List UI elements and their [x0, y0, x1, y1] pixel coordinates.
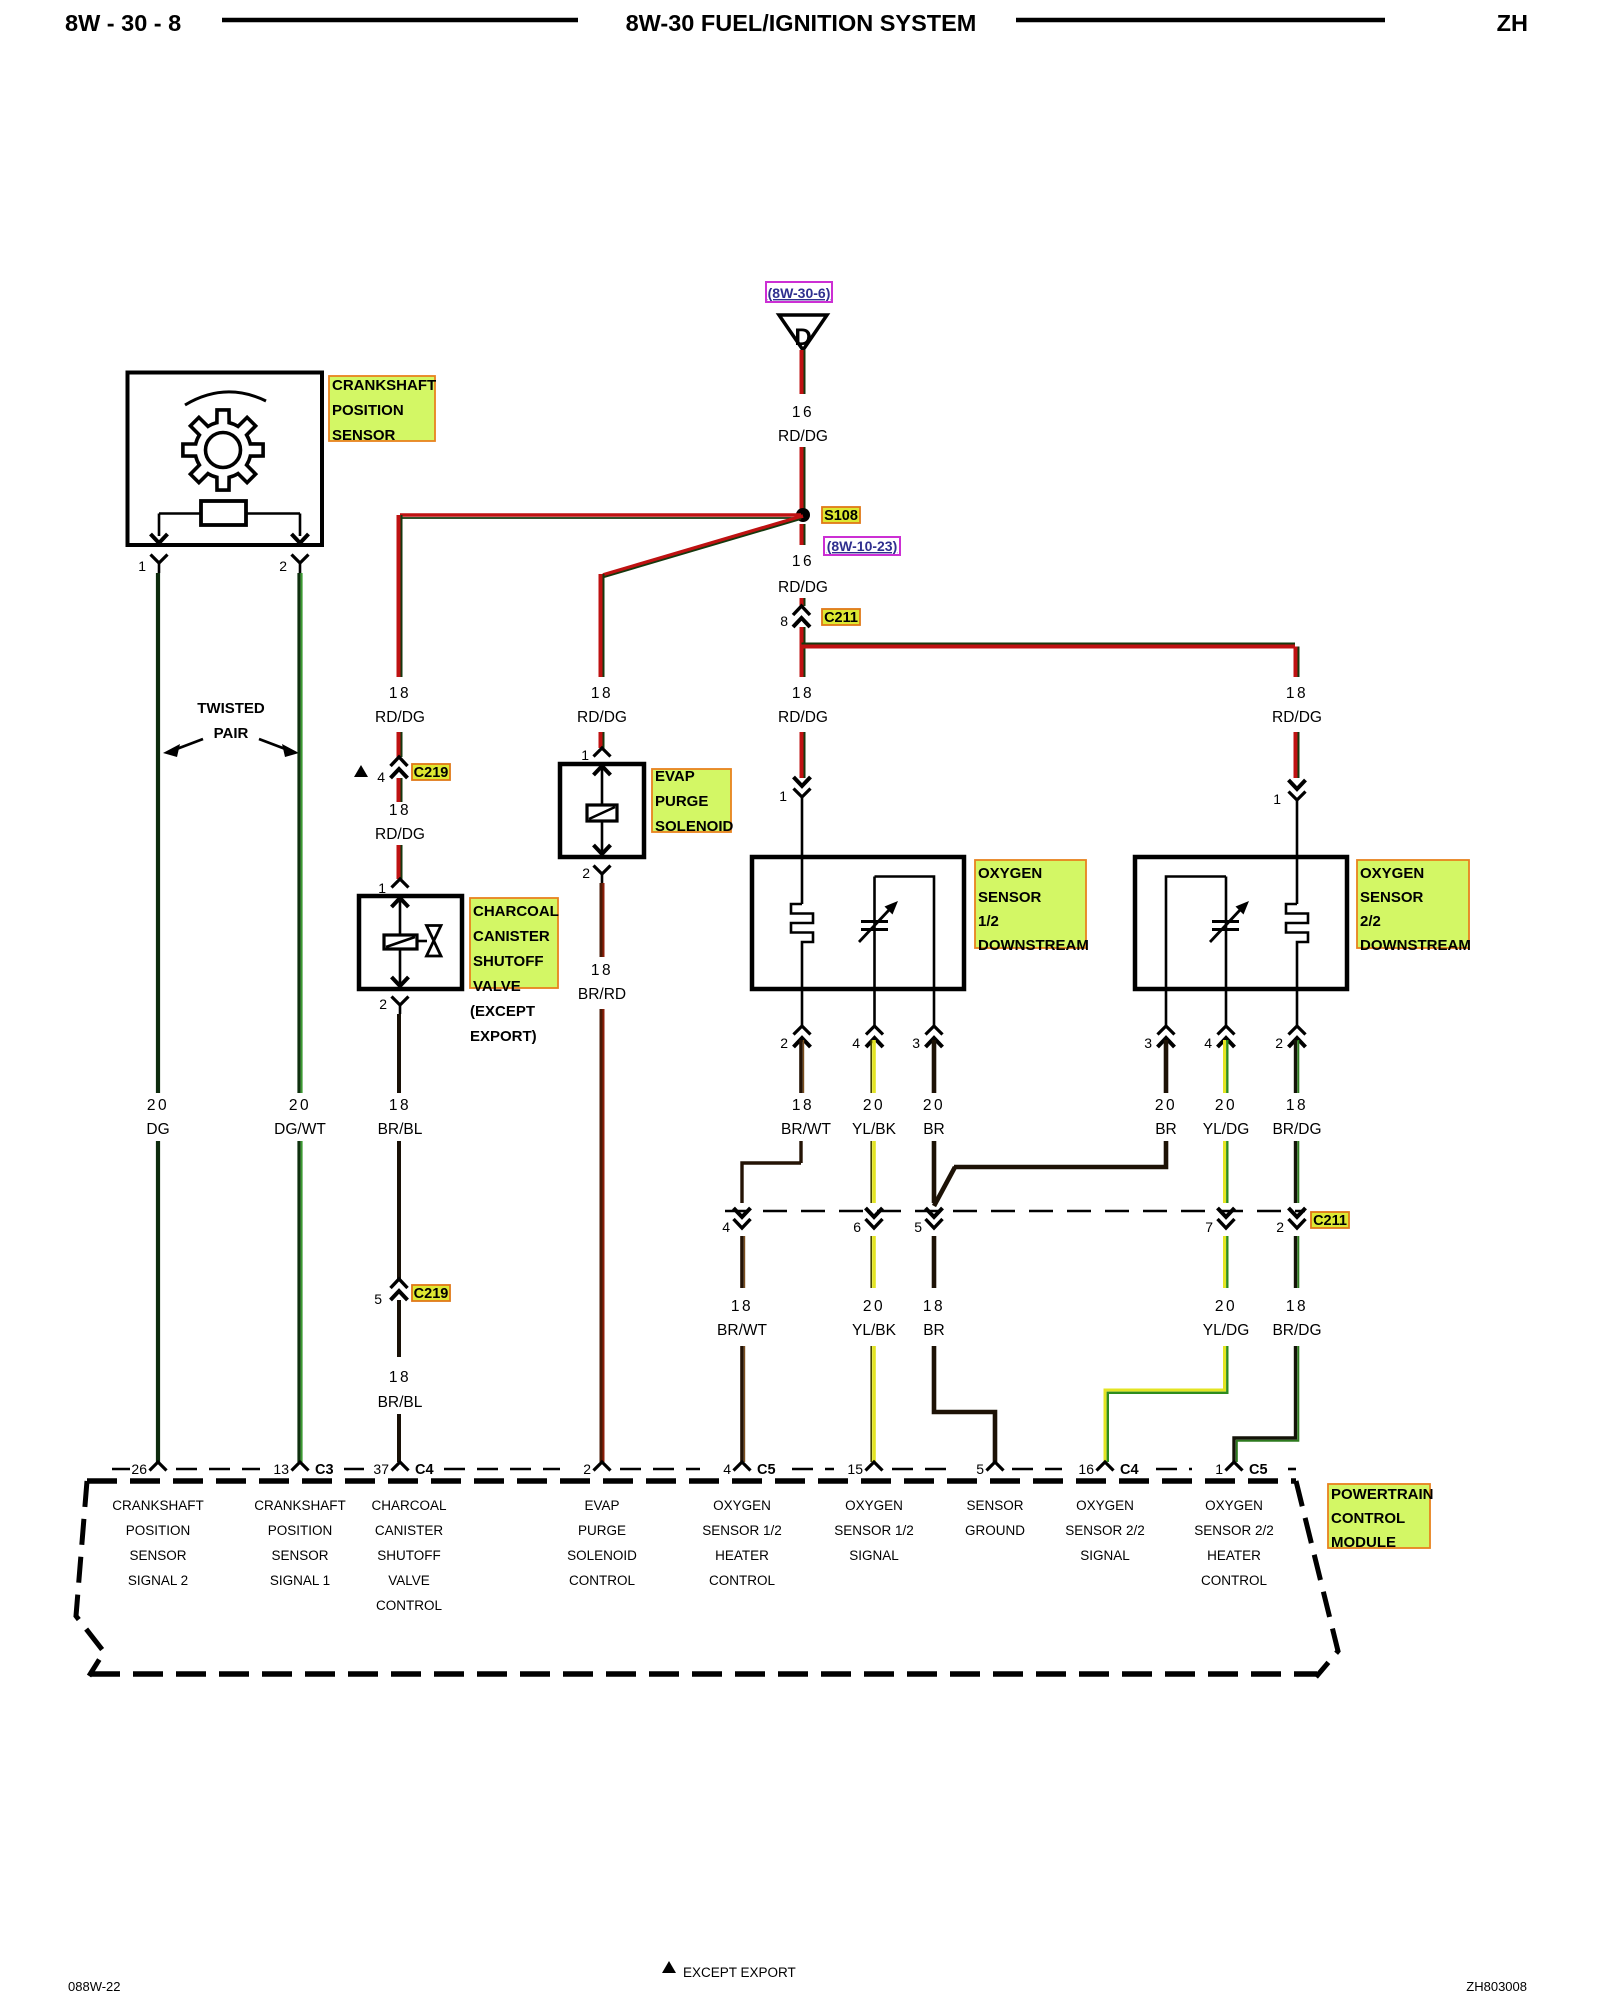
- svg-text:SOLENOID: SOLENOID: [655, 818, 734, 835]
- svg-text:3: 3: [912, 1035, 920, 1051]
- svg-text:DOWNSTREAM: DOWNSTREAM: [978, 937, 1089, 954]
- svg-text:2: 2: [780, 1035, 788, 1051]
- wire 16 RD/DG from triangle: [800, 350, 804, 394]
- svg-text:OXYGEN: OXYGEN: [845, 1498, 903, 1513]
- svg-text:BR/RD: BR/RD: [578, 986, 626, 1003]
- svg-text:CONTROL: CONTROL: [1201, 1573, 1267, 1588]
- label S108: [822, 507, 860, 524]
- svg-text:CANISTER: CANISTER: [375, 1523, 444, 1538]
- svg-text:4: 4: [723, 1461, 731, 1477]
- svg-text:PURGE: PURGE: [578, 1523, 626, 1538]
- svg-text:BR: BR: [923, 1322, 945, 1339]
- wire 20 DG continued: [156, 1141, 160, 1462]
- svg-text:20: 20: [863, 1298, 885, 1315]
- crankshaft sensor gear icon: [183, 410, 263, 490]
- charcoal valve pin 2 connector: [392, 997, 409, 1006]
- wire 18 BR/WT to PCM: [740, 1346, 744, 1462]
- footer except export note: [662, 1961, 676, 1973]
- svg-text:BR/DG: BR/DG: [1272, 1322, 1321, 1339]
- svg-text:BR/WT: BR/WT: [717, 1322, 767, 1339]
- wire 18 BR/DG below C211: [1294, 1236, 1297, 1288]
- svg-text:POSITION: POSITION: [268, 1523, 333, 1538]
- PCM top dashed border: [87, 1478, 1296, 1484]
- wire stub below S108: [800, 524, 804, 545]
- wire 18 BR/DG jog to PCM: [1234, 1346, 1296, 1462]
- svg-text:CRANKSHAFT: CRANKSHAFT: [332, 377, 436, 394]
- svg-text:C211: C211: [1313, 1213, 1347, 1229]
- splice wire S108 to evap branch: [603, 516, 803, 575]
- connector C211 pin 8: [793, 606, 810, 615]
- svg-text:POSITION: POSITION: [332, 402, 404, 419]
- svg-text:8W-30 FUEL/IGNITION SYSTEM: 8W-30 FUEL/IGNITION SYSTEM: [626, 10, 977, 36]
- wire 20 YL/BK to C211 pin 6: [872, 1141, 876, 1203]
- wire 16 RD/DG to splice: [800, 447, 804, 512]
- svg-text:4: 4: [852, 1035, 860, 1051]
- PCM pin 13: [292, 1462, 309, 1471]
- svg-text:18: 18: [1286, 1097, 1308, 1114]
- PCM signal label EVAP PURGE SOLENOID CONTROL: [567, 1498, 637, 1588]
- PCM pin 26: [150, 1462, 167, 1471]
- svg-text:20: 20: [1155, 1097, 1177, 1114]
- svg-text:RD/DG: RD/DG: [1272, 709, 1322, 726]
- svg-text:C219: C219: [414, 765, 449, 781]
- label CRANKSHAFT POSITION SENSOR: [329, 376, 436, 444]
- svg-text:C5: C5: [1249, 1462, 1268, 1478]
- svg-text:PURGE: PURGE: [655, 793, 708, 810]
- charcoal valve symbol: [417, 940, 427, 943]
- wire 20 YL/BK to PCM: [872, 1346, 876, 1462]
- svg-text:(8W-30-6): (8W-30-6): [768, 285, 831, 301]
- svg-text:SIGNAL 2: SIGNAL 2: [128, 1573, 188, 1588]
- crankshaft sensor arc: [185, 392, 266, 405]
- label C211 lower: [1311, 1212, 1349, 1229]
- PCM signal label CRANKSHAFT POSITION SENSOR SIGNAL 1: [254, 1498, 346, 1588]
- wire 18 BR/BL upper: [397, 1014, 401, 1093]
- svg-text:OXYGEN: OXYGEN: [713, 1498, 771, 1513]
- svg-text:SENSOR 2/2: SENSOR 2/2: [1065, 1523, 1145, 1538]
- svg-text:POWERTRAIN: POWERTRAIN: [1331, 1486, 1434, 1503]
- svg-text:SOLENOID: SOLENOID: [567, 1548, 637, 1563]
- svg-text:TWISTED: TWISTED: [197, 700, 265, 717]
- svg-text:SHUTOFF: SHUTOFF: [473, 953, 544, 970]
- svg-text:13: 13: [273, 1461, 289, 1477]
- PCM pin 4: [734, 1462, 751, 1471]
- svg-text:37: 37: [373, 1461, 389, 1477]
- crankshaft sensor pin 1 arrow: [151, 534, 168, 543]
- svg-text:16: 16: [1078, 1461, 1094, 1477]
- PCM signal label OXYGEN SENSOR 1/2 SIGNAL: [834, 1498, 914, 1563]
- svg-text:GROUND: GROUND: [965, 1523, 1025, 1538]
- wire 20 YL/DG below C211: [1223, 1236, 1226, 1288]
- label OXYGEN SENSOR 2/2 DOWNSTREAM: [1357, 860, 1471, 954]
- connector C211 pin 6: [866, 1208, 883, 1217]
- wire 18 BR jog to PCM sensor ground: [934, 1346, 995, 1462]
- wire 18 BR/WT jog to C211 pin 4: [799, 1141, 802, 1163]
- svg-text:20: 20: [289, 1097, 311, 1114]
- PCM signal label SENSOR GROUND: [965, 1498, 1025, 1538]
- svg-text:18: 18: [792, 685, 814, 702]
- connector C211 pin 5: [926, 1208, 943, 1217]
- svg-text:18: 18: [389, 802, 411, 819]
- svg-text:8: 8: [780, 613, 788, 629]
- PCM pin 1: [1226, 1462, 1243, 1471]
- svg-text:2: 2: [582, 865, 590, 881]
- PCM pin 15: [866, 1462, 883, 1471]
- oxygen sensor 2/2 sense element: [1225, 877, 1228, 990]
- wire 18 BR/RD upper: [600, 883, 603, 957]
- crankshaft sensor internal resistor: [201, 501, 246, 525]
- svg-text:C211: C211: [824, 610, 858, 626]
- svg-text:4: 4: [1204, 1035, 1212, 1051]
- svg-text:BR: BR: [923, 1121, 945, 1138]
- wire 20 BR from oxygen sensor 1/2 pin 3: [932, 1040, 937, 1093]
- wire into oxygen sensor 1/2: [801, 809, 804, 904]
- label C211 upper: [822, 609, 860, 626]
- svg-text:YL/BK: YL/BK: [852, 1121, 897, 1138]
- charcoal valve internal arrow top: [399, 896, 402, 935]
- svg-text:CRANKSHAFT: CRANKSHAFT: [112, 1498, 204, 1513]
- wire 18 BR/BL to PCM: [397, 1414, 401, 1462]
- svg-text:DOWNSTREAM: DOWNSTREAM: [1360, 937, 1471, 954]
- connector C211 pin 2: [1289, 1208, 1306, 1217]
- svg-text:CONTROL: CONTROL: [376, 1598, 442, 1613]
- svg-text:RD/DG: RD/DG: [577, 709, 627, 726]
- connector C211 dashed line: [725, 1210, 1305, 1213]
- wire 18 BR/DG upper: [1294, 1040, 1297, 1093]
- svg-text:18: 18: [1286, 685, 1308, 702]
- charcoal valve internal arrow bottom: [399, 949, 402, 988]
- svg-text:6: 6: [853, 1219, 861, 1235]
- svg-text:20: 20: [1215, 1097, 1237, 1114]
- evap solenoid pin 1 connector: [594, 748, 611, 757]
- svg-text:18: 18: [389, 1097, 411, 1114]
- oxygen sensor 2/2 heater element: [1286, 904, 1308, 989]
- wire RD/DG to C219: [397, 732, 401, 757]
- wire 18 BR/BL to C219 pin 5: [397, 1141, 401, 1279]
- svg-text:EVAP: EVAP: [584, 1498, 619, 1513]
- svg-text:POSITION: POSITION: [126, 1523, 191, 1538]
- svg-text:SHUTOFF: SHUTOFF: [377, 1548, 441, 1563]
- PCM right dashed border: [1296, 1481, 1338, 1677]
- oxygen sensor 1/2 internal loop: [875, 877, 935, 990]
- svg-text:EXPORT): EXPORT): [470, 1028, 537, 1045]
- svg-text:1: 1: [1273, 791, 1281, 807]
- wire 20 YL/DG upper: [1223, 1040, 1226, 1093]
- oxygen sensor 2/2 downstream box: [1135, 857, 1347, 989]
- svg-text:CONTROL: CONTROL: [569, 1573, 635, 1588]
- wire 20 DG/WT crankshaft signal 1: [297, 573, 300, 1093]
- svg-text:18: 18: [389, 1369, 411, 1386]
- off-page triangle D: [779, 315, 827, 350]
- svg-text:S108: S108: [824, 508, 858, 524]
- svg-text:RD/DG: RD/DG: [778, 579, 828, 596]
- svg-text:HEATER: HEATER: [1207, 1548, 1261, 1563]
- label OXYGEN SENSOR 1/2 DOWNSTREAM: [975, 860, 1089, 954]
- label EVAP PURGE SOLENOID: [652, 768, 734, 835]
- oxygen sensor 1/2 pin 2 connector: [801, 989, 804, 1026]
- crankshaft sensor pin 2 arrow: [292, 534, 309, 543]
- svg-text:RD/DG: RD/DG: [778, 428, 828, 445]
- svg-text:16: 16: [792, 553, 814, 570]
- header rule right: [1016, 18, 1385, 23]
- wire RD/DG to charcoal valve pin 1: [397, 845, 401, 879]
- oxygen sensor 1/2 pin 4 connector: [873, 989, 876, 1026]
- svg-text:(EXCEPT: (EXCEPT: [470, 1003, 535, 1020]
- wire 20 YL/BK upper: [872, 1040, 876, 1093]
- header rule left: [222, 18, 578, 23]
- label C219 lower: [412, 1285, 450, 1302]
- svg-text:20: 20: [863, 1097, 885, 1114]
- svg-text:2: 2: [279, 558, 287, 574]
- PCM connector dashed line: [112, 1468, 130, 1471]
- wire 18 BR/WT upper: [799, 1040, 803, 1093]
- svg-text:VALVE: VALVE: [473, 978, 521, 995]
- connector C219 pin 4: [391, 757, 408, 766]
- oxygen sensor 2/2 pin 3 connector: [1165, 989, 1168, 1026]
- wire 18 BR/DG to C211 pin 2: [1294, 1141, 1297, 1203]
- svg-text:SENSOR: SENSOR: [1360, 889, 1424, 906]
- label (8W-30-6) reference: [766, 282, 832, 302]
- svg-text:1: 1: [581, 747, 589, 763]
- svg-text:SENSOR: SENSOR: [966, 1498, 1023, 1513]
- wire RD/DG to oxygen sensor 1/2 pin 1: [800, 732, 804, 778]
- wire RD/DG to evap pin 1: [599, 732, 603, 748]
- svg-text:CHARCOAL: CHARCOAL: [371, 1498, 447, 1513]
- svg-text:OXYGEN: OXYGEN: [1076, 1498, 1134, 1513]
- svg-text:3: 3: [1144, 1035, 1152, 1051]
- PCM signal label OXYGEN SENSOR 2/2 HEATER CONTROL: [1194, 1498, 1274, 1588]
- PCM signal label CHARCOAL CANISTER SHUTOFF VALVE CONTROL: [371, 1498, 447, 1613]
- svg-text:(8W-10-23): (8W-10-23): [827, 538, 898, 554]
- wire 20 BR from oxygen sensor 2/2 pin 3: [1164, 1040, 1169, 1093]
- crankshaft sensor internal wiring: [159, 512, 201, 515]
- svg-text:SENSOR: SENSOR: [271, 1548, 328, 1563]
- svg-text:18: 18: [792, 1097, 814, 1114]
- wire 20 YL/DG jog to PCM: [1105, 1346, 1225, 1462]
- connector C219 pin 5: [391, 1279, 408, 1288]
- svg-text:OXYGEN: OXYGEN: [1205, 1498, 1263, 1513]
- svg-text:4: 4: [722, 1219, 730, 1235]
- svg-text:2: 2: [583, 1461, 591, 1477]
- wire 16 RD/DG to C211: [800, 598, 804, 606]
- svg-text:15: 15: [847, 1461, 863, 1477]
- oxygen sensor 1/2 pin 1 connector: [794, 777, 811, 786]
- svg-text:BR/DG: BR/DG: [1272, 1121, 1321, 1138]
- PCM pin 2: [594, 1462, 611, 1471]
- label CHARCOAL CANISTER SHUTOFF VALVE: [470, 898, 559, 995]
- svg-text:8W - 30 - 8: 8W - 30 - 8: [65, 10, 181, 36]
- oxygen sensor 1/2 sense element: [873, 877, 876, 990]
- crankshaft sensor pin 2 connector: [292, 555, 309, 564]
- svg-text:2: 2: [379, 996, 387, 1012]
- svg-text:YL/DG: YL/DG: [1203, 1322, 1250, 1339]
- svg-text:RD/DG: RD/DG: [778, 709, 828, 726]
- wire 18 RD/DG charcoal branch upper: [397, 515, 401, 677]
- svg-text:MODULE: MODULE: [1331, 1534, 1396, 1551]
- svg-text:2: 2: [1276, 1219, 1284, 1235]
- svg-text:DG/WT: DG/WT: [274, 1121, 326, 1138]
- svg-text:CHARCOAL: CHARCOAL: [473, 903, 559, 920]
- svg-text:CRANKSHAFT: CRANKSHAFT: [254, 1498, 346, 1513]
- svg-text:1: 1: [138, 558, 146, 574]
- svg-text:2/2: 2/2: [1360, 913, 1381, 930]
- svg-text:5: 5: [374, 1291, 382, 1307]
- PCM left dashed border: [76, 1481, 104, 1676]
- svg-text:DG: DG: [146, 1121, 169, 1138]
- evap purge solenoid box: [560, 764, 644, 857]
- svg-text:RD/DG: RD/DG: [375, 709, 425, 726]
- PCM signal label OXYGEN SENSOR 1/2 HEATER CONTROL: [702, 1498, 782, 1588]
- wire 20 BR to C211 pin 5: [932, 1141, 937, 1203]
- svg-text:18: 18: [591, 962, 613, 979]
- svg-text:HEATER: HEATER: [715, 1548, 769, 1563]
- svg-text:ZH803008: ZH803008: [1466, 1979, 1527, 1994]
- PCM signal label OXYGEN SENSOR 2/2 SIGNAL: [1065, 1498, 1145, 1563]
- PCM pin 5: [987, 1462, 1004, 1471]
- svg-text:CONTROL: CONTROL: [709, 1573, 775, 1588]
- svg-text:SENSOR: SENSOR: [129, 1548, 186, 1563]
- connector C211 pin 7: [1218, 1208, 1235, 1217]
- svg-text:C5: C5: [757, 1462, 776, 1478]
- svg-text:C219: C219: [414, 1286, 449, 1302]
- svg-text:SENSOR 1/2: SENSOR 1/2: [702, 1523, 782, 1538]
- svg-text:5: 5: [976, 1461, 984, 1477]
- svg-text:D: D: [794, 324, 811, 351]
- label (8W-10-23) reference: [824, 537, 900, 555]
- PCM signal label CRANKSHAFT POSITION SENSOR SIGNAL 2: [112, 1498, 204, 1588]
- evap solenoid internal arrow top: [601, 764, 604, 805]
- svg-text:EVAP: EVAP: [655, 768, 695, 785]
- svg-text:YL/DG: YL/DG: [1203, 1121, 1250, 1138]
- svg-text:OXYGEN: OXYGEN: [1360, 865, 1424, 882]
- svg-text:C3: C3: [315, 1462, 334, 1478]
- PCM bottom dashed border: [90, 1671, 1317, 1677]
- wire RD/DG below C211 pin 8: [800, 627, 804, 677]
- svg-text:4: 4: [377, 769, 385, 785]
- charcoal valve solenoid: [384, 935, 417, 949]
- svg-text:CONTROL: CONTROL: [1331, 1510, 1405, 1527]
- PCM pin 37: [392, 1462, 409, 1471]
- svg-text:7: 7: [1205, 1219, 1213, 1235]
- svg-text:BR/BL: BR/BL: [378, 1394, 423, 1411]
- svg-text:YL/BK: YL/BK: [852, 1322, 897, 1339]
- evap solenoid internal arrow bottom: [601, 821, 604, 856]
- wire RD/DG below C219: [397, 778, 401, 802]
- wire into oxygen sensor 2/2: [1296, 812, 1299, 904]
- wire 18 BR below C211: [932, 1236, 937, 1288]
- svg-text:1: 1: [378, 880, 386, 896]
- wire 20 DG/WT continued: [297, 1141, 300, 1462]
- svg-text:BR: BR: [1155, 1121, 1177, 1138]
- wire 20 BR joining splice to C211 pin 5: [954, 1141, 1166, 1167]
- svg-text:ZH: ZH: [1497, 10, 1528, 36]
- wire 18 RD/DG evap branch: [599, 574, 603, 677]
- oxygen sensor 2/2 pin 2 connector: [1296, 989, 1299, 1026]
- PCM pin 16: [1097, 1462, 1114, 1471]
- svg-text:1/2: 1/2: [978, 913, 999, 930]
- svg-text:SENSOR 1/2: SENSOR 1/2: [834, 1523, 914, 1538]
- wire 20 DG crankshaft signal 2: [156, 573, 160, 1093]
- svg-text:20: 20: [147, 1097, 169, 1114]
- svg-text:1: 1: [1215, 1461, 1223, 1477]
- svg-text:088W-22: 088W-22: [68, 1979, 121, 1994]
- oxygen sensor 1/2 downstream box: [752, 857, 964, 989]
- svg-text:C4: C4: [415, 1462, 434, 1478]
- connector C211 pin 4: [734, 1208, 751, 1217]
- wire RD/DG to oxygen sensor 2/2 pin 1: [1294, 732, 1298, 778]
- svg-text:18: 18: [731, 1298, 753, 1315]
- svg-text:18: 18: [1286, 1298, 1308, 1315]
- svg-text:BR/WT: BR/WT: [781, 1121, 831, 1138]
- svg-text:SENSOR 2/2: SENSOR 2/2: [1194, 1523, 1274, 1538]
- wire 20 YL/BK below C211: [872, 1236, 876, 1288]
- svg-text:CANISTER: CANISTER: [473, 928, 550, 945]
- charcoal canister shutoff valve box: [359, 896, 462, 989]
- oxygen sensor 1/2 heater element: [791, 904, 813, 989]
- svg-text:5: 5: [914, 1219, 922, 1235]
- wire 20 YL/DG to C211 pin 7: [1223, 1141, 1226, 1203]
- svg-text:SENSOR: SENSOR: [978, 889, 1042, 906]
- svg-text:16: 16: [792, 404, 814, 421]
- svg-text:OXYGEN: OXYGEN: [978, 865, 1042, 882]
- splice S108: [796, 508, 810, 522]
- svg-text:SIGNAL 1: SIGNAL 1: [270, 1573, 330, 1588]
- svg-text:20: 20: [923, 1097, 945, 1114]
- svg-text:BR/BL: BR/BL: [378, 1121, 423, 1138]
- oxygen sensor 1/2 pin 3 connector: [933, 989, 936, 1026]
- svg-text:18: 18: [591, 685, 613, 702]
- crankshaft position sensor box: [128, 373, 323, 546]
- label POWERTRAIN CONTROL MODULE: [1328, 1484, 1434, 1551]
- svg-text:PAIR: PAIR: [214, 725, 249, 742]
- oxygen sensor 2/2 pin 1 connector: [1289, 780, 1306, 789]
- svg-text:20: 20: [1215, 1298, 1237, 1315]
- svg-text:RD/DG: RD/DG: [375, 826, 425, 843]
- wire 18 BR/WT below C211: [740, 1236, 744, 1288]
- svg-text:SIGNAL: SIGNAL: [1080, 1548, 1130, 1563]
- splice wire S108 to charcoal branch: [400, 513, 801, 517]
- svg-text:VALVE: VALVE: [388, 1573, 430, 1588]
- svg-text:C4: C4: [1120, 1462, 1139, 1478]
- svg-text:SENSOR: SENSOR: [332, 427, 396, 444]
- wire 18 BR/BL below C219: [397, 1300, 401, 1357]
- svg-text:SIGNAL: SIGNAL: [849, 1548, 899, 1563]
- svg-text:1: 1: [779, 788, 787, 804]
- wire 18 BR/RD to PCM: [600, 1009, 603, 1462]
- crankshaft sensor pin 1 connector: [151, 555, 168, 564]
- oxygen sensor 2/2 internal loop: [1166, 877, 1226, 990]
- charcoal valve pin 1 connector: [392, 879, 409, 888]
- svg-text:26: 26: [131, 1461, 147, 1477]
- branch wire RD/DG to oxygen sensor 2/2: [802, 645, 1296, 649]
- label C219 upper: [412, 764, 450, 781]
- twisted pair note: [163, 700, 299, 757]
- svg-text:2: 2: [1275, 1035, 1283, 1051]
- evap solenoid coil: [587, 805, 617, 821]
- svg-text:EXCEPT EXPORT: EXCEPT EXPORT: [683, 1965, 796, 1980]
- evap solenoid pin 2 connector: [594, 866, 611, 875]
- svg-text:18: 18: [923, 1298, 945, 1315]
- svg-text:18: 18: [389, 685, 411, 702]
- oxygen sensor 2/2 pin 4 connector: [1225, 989, 1228, 1026]
